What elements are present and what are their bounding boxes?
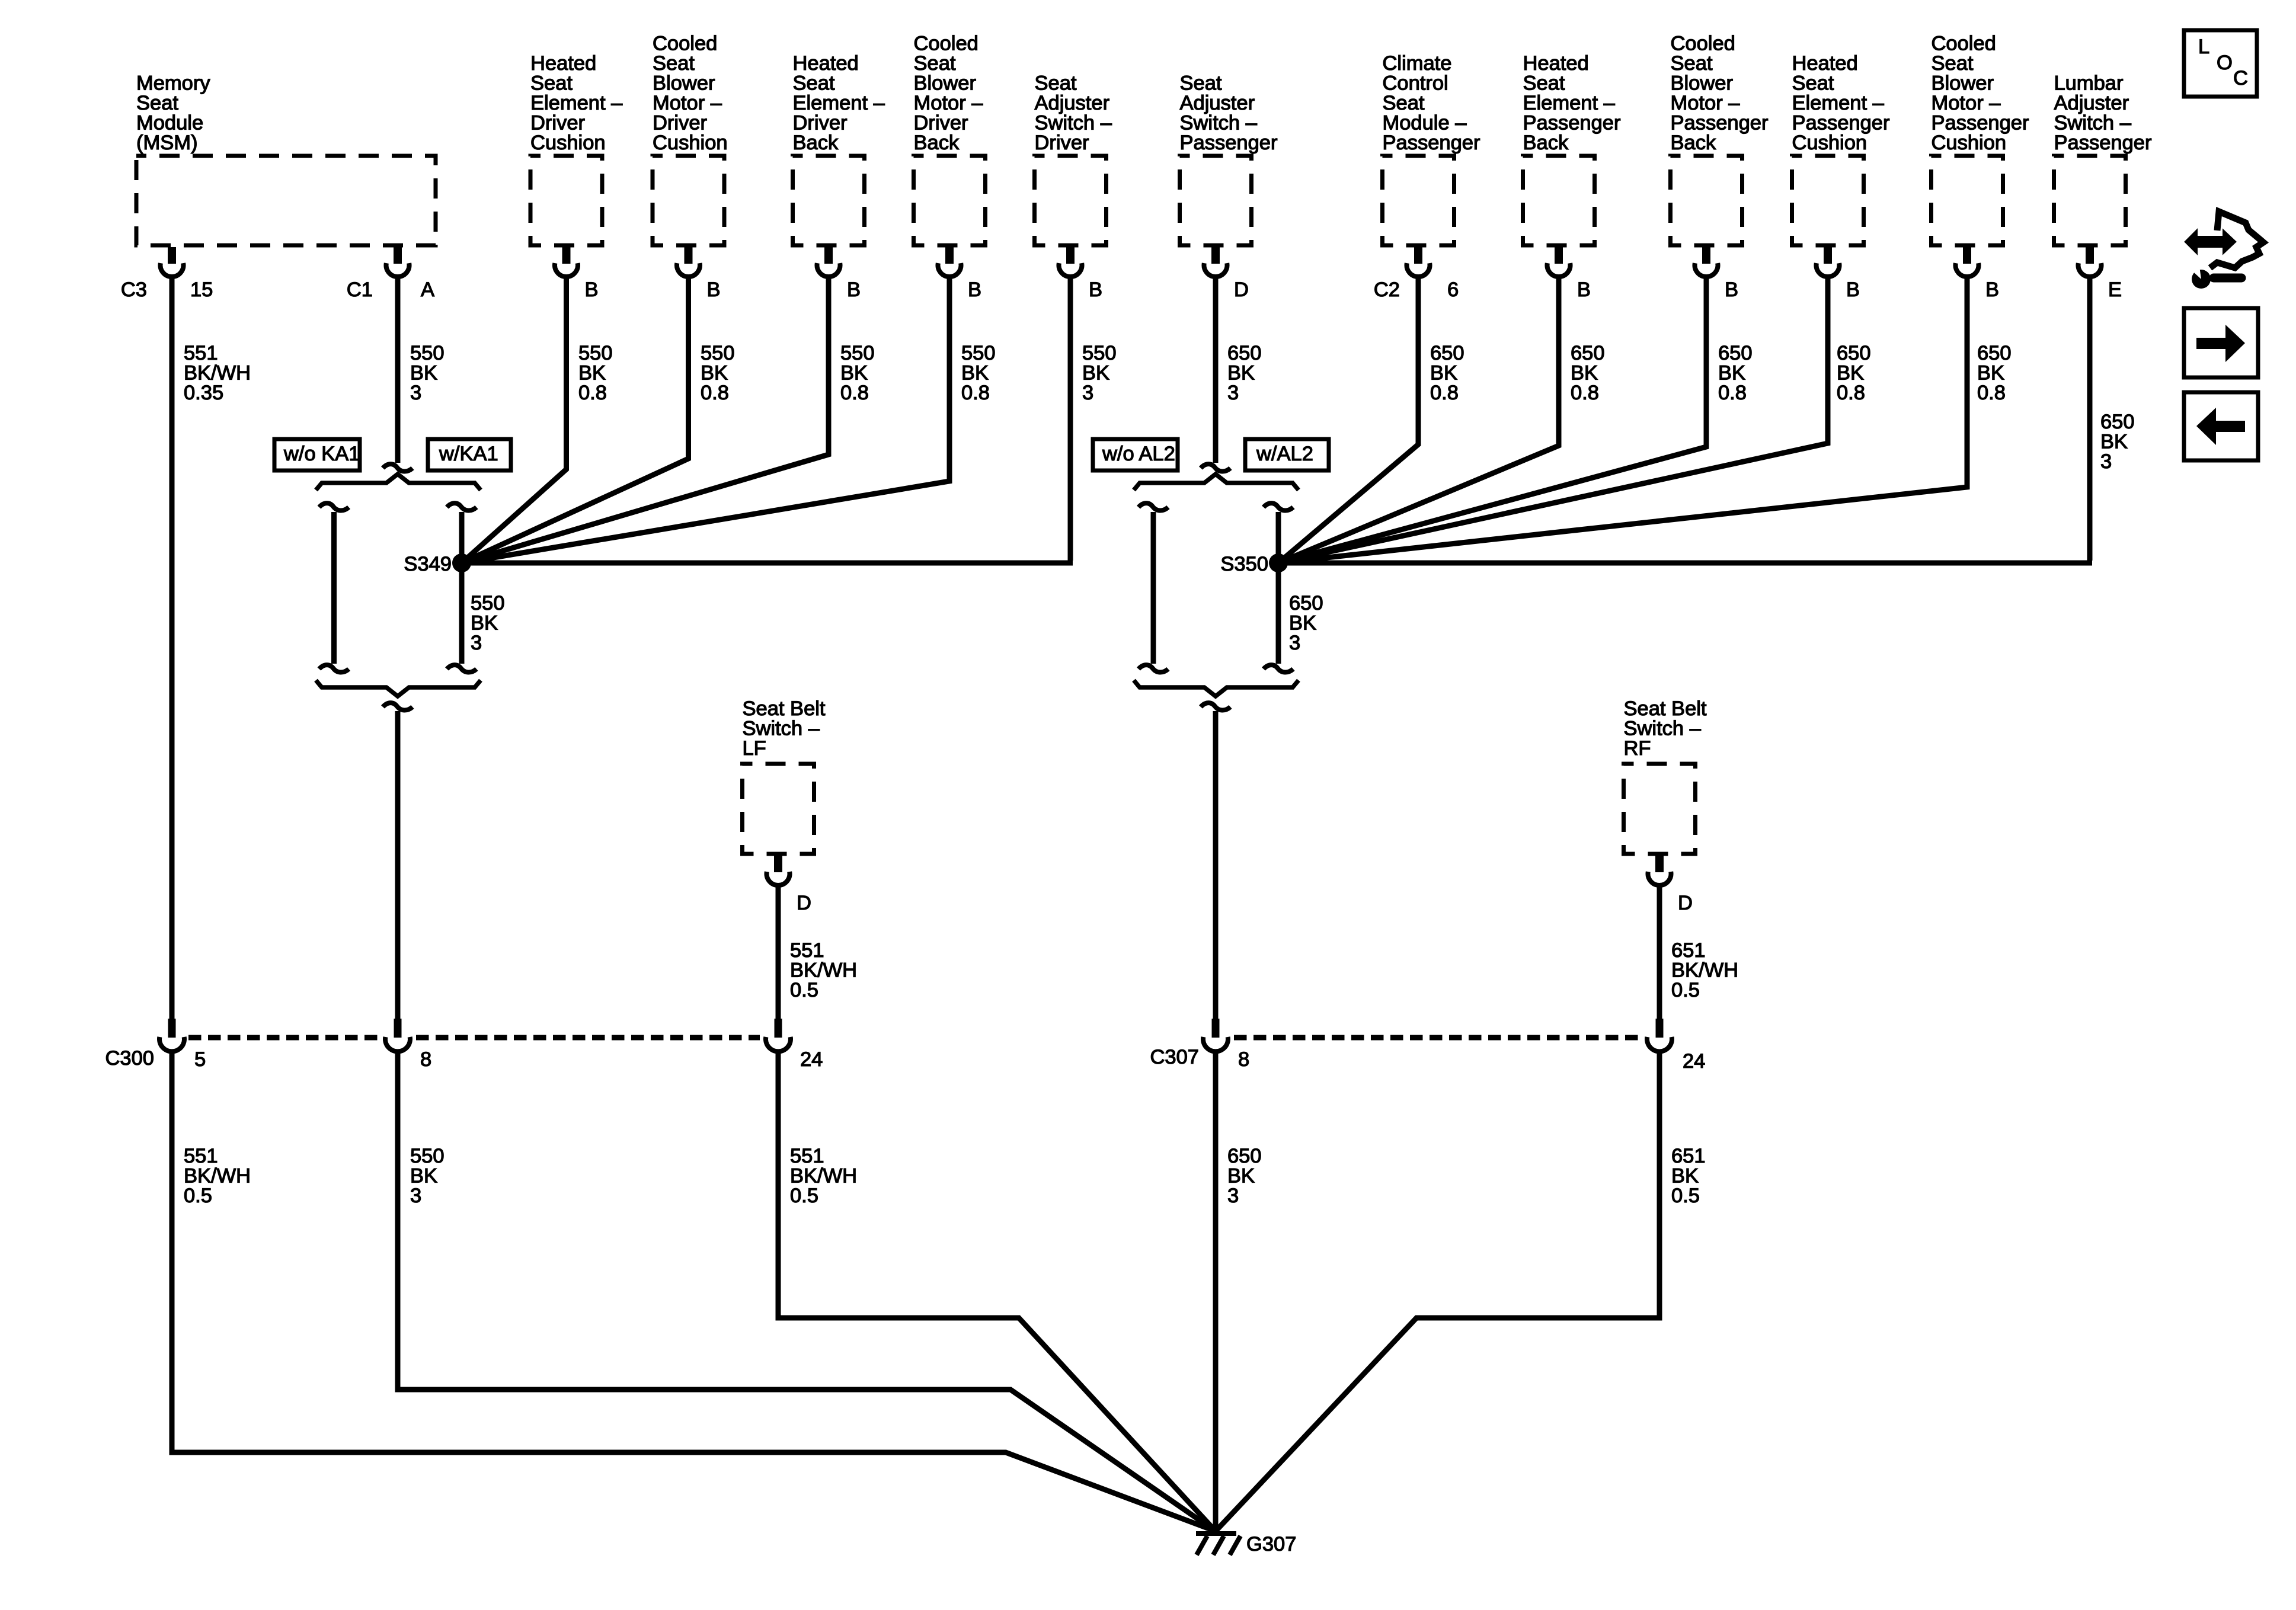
svg-text:BK: BK xyxy=(410,362,437,385)
ground G307 xyxy=(1196,1531,1296,1555)
svg-text:Seat: Seat xyxy=(1792,72,1834,95)
break symbol bottom of w/o KA1 branch xyxy=(319,665,349,672)
svg-text:C2: C2 xyxy=(1374,279,1400,301)
svg-text:550: 550 xyxy=(410,342,445,364)
wire 551 BK/WH 0.5 from C300 pin 5 to ground G307 xyxy=(172,1052,1216,1531)
connector pin E at x=3526 xyxy=(2078,247,2122,301)
component box: Heated Seat Element - Driver Back xyxy=(793,52,885,245)
svg-text:Passenger: Passenger xyxy=(1671,112,1769,135)
svg-text:3: 3 xyxy=(1227,1185,1239,1207)
break symbol bottom of w/AL2 branch xyxy=(1264,665,1293,672)
connector pin 6 at x=2393 xyxy=(1374,247,1459,301)
svg-text:Driver: Driver xyxy=(793,112,848,135)
break symbol top of w/o KA1 branch xyxy=(319,503,349,510)
wire w/AL2 branch through splice S350 xyxy=(1276,512,1281,664)
svg-text:Element –: Element – xyxy=(1792,92,1885,114)
wire 551 BK/WH 0.5 from seat belt LF to C300 xyxy=(776,885,781,1019)
svg-text:15: 15 xyxy=(190,279,213,301)
connector pin B at x=3319 xyxy=(1955,247,1999,301)
svg-text:Element –: Element – xyxy=(793,92,885,114)
svg-text:Back: Back xyxy=(1671,132,1716,154)
svg-text:Motor –: Motor – xyxy=(1932,92,2001,114)
svg-text:Back: Back xyxy=(914,132,960,154)
label: 550 BK 0.8 xyxy=(578,342,613,404)
svg-text:Passenger: Passenger xyxy=(1180,132,1278,154)
label: 551 BK/WH 0.5 (seat belt LF) xyxy=(790,939,857,1001)
svg-text:Passenger: Passenger xyxy=(2054,132,2152,154)
component box: Cooled Seat Blower Motor - Driver Back xyxy=(914,33,986,246)
component box: Heated Seat Element - Passenger Back xyxy=(1523,52,1621,245)
component box: Heated Seat Element - Driver Cushion xyxy=(530,52,623,245)
wire 651 BK 0.5 from C307 pin 24 to ground G307 xyxy=(1216,1052,1659,1531)
svg-text:650: 650 xyxy=(1289,592,1323,614)
svg-text:BK: BK xyxy=(1082,362,1109,385)
svg-text:0.35: 0.35 xyxy=(184,382,223,404)
label: 550 BK 3 (below connector row) xyxy=(410,1145,445,1207)
option box w/o AL2 xyxy=(1093,439,1178,470)
svg-text:C300: C300 xyxy=(105,1047,154,1070)
svg-text:3: 3 xyxy=(1227,382,1239,404)
wire 650 BK from seat adjuster passenger down to option split xyxy=(1213,277,1219,463)
svg-text:Heated: Heated xyxy=(793,52,859,75)
svg-text:550: 550 xyxy=(578,342,613,364)
svg-text:(MSM): (MSM) xyxy=(136,132,197,154)
svg-text:BK: BK xyxy=(1718,362,1745,385)
svg-text:BK: BK xyxy=(1227,1165,1255,1188)
svg-text:Seat: Seat xyxy=(1932,52,1974,75)
svg-text:G307: G307 xyxy=(1246,1533,1296,1555)
component box: Climate Control Seat Module - Passenger xyxy=(1383,52,1480,245)
svg-text:D: D xyxy=(1678,892,1693,914)
label: 651 BK/WH 0.5 (seat belt RF) xyxy=(1671,939,1738,1001)
svg-text:B: B xyxy=(1577,279,1591,301)
svg-text:3: 3 xyxy=(410,382,421,404)
icon box: arrow left xyxy=(2184,392,2258,460)
svg-text:BK: BK xyxy=(1837,362,1864,385)
label: 650 BK 3 xyxy=(1227,342,1262,404)
svg-text:Driver: Driver xyxy=(914,112,968,135)
label: 550 BK 3 xyxy=(1082,342,1117,404)
svg-text:Element –: Element – xyxy=(1523,92,1616,114)
svg-text:BK: BK xyxy=(578,362,606,385)
svg-text:Blower: Blower xyxy=(653,72,715,95)
svg-text:Module –: Module – xyxy=(1383,112,1467,135)
label: 551 BK/WH 0.5 (below connector row) xyxy=(790,1145,857,1207)
svg-text:Seat: Seat xyxy=(1180,72,1222,95)
svg-text:Blower: Blower xyxy=(1671,72,1733,95)
svg-text:BK: BK xyxy=(1227,362,1255,385)
svg-text:L: L xyxy=(2198,36,2209,58)
svg-text:Cushion: Cushion xyxy=(530,132,606,154)
wire 650 BK 0.8 from x=2393 to splice S350 xyxy=(1278,277,1418,563)
label: 550 BK 0.8 xyxy=(961,342,996,404)
icon: animal head with double arrow and wrench xyxy=(2186,212,2263,289)
svg-text:0.8: 0.8 xyxy=(1430,382,1459,404)
svg-text:651: 651 xyxy=(1671,939,1706,962)
svg-text:Seat Belt: Seat Belt xyxy=(1624,697,1707,720)
svg-text:B: B xyxy=(1725,279,1738,301)
svg-text:BK: BK xyxy=(1289,612,1316,635)
svg-text:B: B xyxy=(585,279,599,301)
svg-text:BK/WH: BK/WH xyxy=(184,362,251,385)
connector row C307 dashed line xyxy=(1234,1035,1641,1041)
component box: Cooled Seat Blower Motor - Passenger Back xyxy=(1671,33,1769,246)
svg-text:Back: Back xyxy=(1523,132,1569,154)
svg-text:Heated: Heated xyxy=(1523,52,1589,75)
svg-text:Cooled: Cooled xyxy=(1932,33,1996,55)
svg-text:A: A xyxy=(421,279,434,301)
wire 650 BK 0.8 from x=3084 to splice S350 xyxy=(1278,277,1828,563)
label: 551 BK/WH 0.5 (below connector row) xyxy=(184,1145,251,1207)
break symbol below AL2 option split xyxy=(1201,703,1230,710)
svg-text:B: B xyxy=(1089,279,1102,301)
svg-text:Seat: Seat xyxy=(530,72,573,95)
svg-text:w/AL2: w/AL2 xyxy=(1256,443,1313,465)
svg-text:C1: C1 xyxy=(347,279,373,301)
svg-text:O: O xyxy=(2217,52,2233,74)
svg-text:0.8: 0.8 xyxy=(578,382,607,404)
break symbol top of w/AL2 branch xyxy=(1264,503,1293,510)
svg-text:Adjuster: Adjuster xyxy=(2054,92,2129,114)
wire 550 BK 0.8 from x=1602 to splice S349 xyxy=(462,277,949,563)
option box w/KA1 xyxy=(428,439,511,470)
connector pin B at x=1398 xyxy=(817,247,861,301)
wire 651 BK/WH 0.5 from seat belt RF to C307 xyxy=(1657,885,1662,1019)
svg-text:3: 3 xyxy=(1082,382,1093,404)
component box: Seat Adjuster Switch - Passenger xyxy=(1180,72,1278,246)
wire 550 BK from C1-A down to option split xyxy=(395,277,401,463)
svg-text:3: 3 xyxy=(1289,632,1300,654)
connector pin D (Seat Belt Switch LF) xyxy=(767,854,811,914)
svg-text:B: B xyxy=(1846,279,1860,301)
connector pin B at x=1806 xyxy=(1059,247,1103,301)
svg-text:6: 6 xyxy=(1447,279,1459,301)
svg-text:550: 550 xyxy=(701,342,735,364)
break symbol bottom of w/o AL2 branch xyxy=(1139,665,1168,672)
svg-text:BK: BK xyxy=(410,1165,437,1188)
wire 650 BK 0.8 from x=3319 to splice S350 xyxy=(1278,277,1967,563)
svg-text:BK/WH: BK/WH xyxy=(184,1165,251,1188)
wire 550 BK 3 from C300 pin 8 to ground G307 xyxy=(398,1052,1216,1531)
connector pin 15 at x=290 xyxy=(121,247,213,301)
svg-text:C: C xyxy=(2233,67,2248,89)
svg-text:Lumbar: Lumbar xyxy=(2054,72,2124,95)
svg-text:551: 551 xyxy=(790,1145,824,1167)
svg-text:Switch –: Switch – xyxy=(1035,112,1112,135)
break symbol bottom of w/KA1 branch xyxy=(447,665,477,672)
splice S349 xyxy=(404,553,471,575)
svg-text:Seat: Seat xyxy=(653,52,695,75)
connector row C300 dashed line xyxy=(188,1035,760,1041)
svg-text:BK: BK xyxy=(1671,1165,1699,1188)
svg-text:Motor –: Motor – xyxy=(653,92,722,114)
svg-text:BK/WH: BK/WH xyxy=(1671,959,1738,982)
svg-text:BK: BK xyxy=(2100,431,2128,453)
label: 551 BK/WH 0.35 xyxy=(184,342,251,404)
svg-text:551: 551 xyxy=(184,342,218,364)
svg-text:BK: BK xyxy=(840,362,868,385)
svg-text:Seat: Seat xyxy=(136,92,178,114)
svg-text:551: 551 xyxy=(184,1145,218,1167)
svg-text:0.8: 0.8 xyxy=(840,382,869,404)
svg-text:C3: C3 xyxy=(121,279,147,301)
svg-text:650: 650 xyxy=(1718,342,1753,364)
svg-text:0.5: 0.5 xyxy=(184,1185,212,1207)
label: 650 BK 0.8 xyxy=(1718,342,1753,404)
svg-text:BK: BK xyxy=(471,612,498,635)
svg-text:Passenger: Passenger xyxy=(1523,112,1621,135)
svg-text:550: 550 xyxy=(1082,342,1117,364)
wire w/KA1 branch through splice S349 xyxy=(459,512,465,664)
svg-text:Seat: Seat xyxy=(1383,92,1425,114)
svg-text:Seat: Seat xyxy=(1671,52,1713,75)
svg-text:BK/WH: BK/WH xyxy=(790,1165,857,1188)
connector pin B at x=955.5 xyxy=(555,247,599,301)
bottom brace of AL2 option split xyxy=(1134,680,1299,696)
svg-text:Back: Back xyxy=(793,132,839,154)
svg-text:Cooled: Cooled xyxy=(1671,33,1735,55)
svg-text:Seat: Seat xyxy=(1523,72,1565,95)
svg-text:Switch –: Switch – xyxy=(1624,718,1702,740)
svg-text:Passenger: Passenger xyxy=(1932,112,2029,135)
svg-text:650: 650 xyxy=(1227,1145,1262,1167)
svg-text:Driver: Driver xyxy=(530,112,585,135)
svg-text:Switch –: Switch – xyxy=(1180,112,1258,135)
svg-text:550: 550 xyxy=(471,592,505,614)
svg-text:0.8: 0.8 xyxy=(961,382,990,404)
svg-text:Passenger: Passenger xyxy=(1792,112,1890,135)
component box: Memory Seat Module (MSM) xyxy=(136,72,436,246)
label: 650 BK 3 (S350 stem) xyxy=(1289,592,1323,654)
splice S350 xyxy=(1220,553,1288,575)
svg-text:Climate: Climate xyxy=(1383,52,1452,75)
svg-text:3: 3 xyxy=(410,1185,421,1207)
option box w/AL2 xyxy=(1245,439,1329,470)
wire w/o AL2 branch xyxy=(1151,512,1156,664)
label: 650 BK 0.8 xyxy=(1837,342,1871,404)
connector pin B at x=1161.5 xyxy=(677,247,721,301)
svg-text:Motor –: Motor – xyxy=(914,92,984,114)
svg-text:550: 550 xyxy=(840,342,875,364)
svg-text:0.8: 0.8 xyxy=(1718,382,1747,404)
label: 550 BK 0.8 xyxy=(840,342,875,404)
svg-text:Seat: Seat xyxy=(793,72,835,95)
svg-text:5: 5 xyxy=(194,1048,206,1071)
wire 650 BK 0.8 from x=2879 to splice S350 xyxy=(1278,277,1706,563)
connector pin B at x=2630 xyxy=(1547,247,1591,301)
svg-text:Blower: Blower xyxy=(1932,72,1994,95)
svg-text:C307: C307 xyxy=(1150,1046,1199,1068)
connector pin B at x=2879 xyxy=(1695,247,1739,301)
svg-text:Cushion: Cushion xyxy=(653,132,728,154)
svg-text:BK: BK xyxy=(961,362,989,385)
svg-text:BK: BK xyxy=(1571,362,1598,385)
svg-text:24: 24 xyxy=(800,1048,823,1071)
break symbol below KA1 option split xyxy=(383,703,412,710)
svg-text:B: B xyxy=(707,279,721,301)
component box: Seat Adjuster Switch - Driver xyxy=(1035,72,1112,246)
svg-text:Seat: Seat xyxy=(914,52,956,75)
svg-text:550: 550 xyxy=(410,1145,445,1167)
label: 550 BK 3 xyxy=(410,342,445,404)
label: 650 BK 0.8 xyxy=(1977,342,2012,404)
svg-text:Blower: Blower xyxy=(914,72,976,95)
option box w/o KA1 xyxy=(274,439,360,470)
svg-text:E: E xyxy=(2108,279,2122,301)
svg-text:Driver: Driver xyxy=(1035,132,1089,154)
svg-text:Adjuster: Adjuster xyxy=(1035,92,1110,114)
svg-text:650: 650 xyxy=(1227,342,1262,364)
svg-text:B: B xyxy=(847,279,861,301)
break symbol above S350 split xyxy=(1201,464,1230,471)
svg-text:3: 3 xyxy=(471,632,482,654)
svg-text:S350: S350 xyxy=(1220,553,1268,575)
svg-text:BK/WH: BK/WH xyxy=(790,959,857,982)
label: 650 BK 3 (below connector row) xyxy=(1227,1145,1262,1207)
svg-text:8: 8 xyxy=(1238,1048,1249,1071)
svg-text:650: 650 xyxy=(1571,342,1605,364)
svg-text:0.8: 0.8 xyxy=(1571,382,1599,404)
wire 550 BK 3 stem from KA1 split to C300 pin 8 xyxy=(395,711,401,1019)
svg-text:0.5: 0.5 xyxy=(1671,1185,1700,1207)
svg-text:D: D xyxy=(797,892,811,914)
svg-text:S349: S349 xyxy=(404,553,452,575)
connector C300 pin 8 xyxy=(385,1019,431,1071)
label: 550 BK 3 (S349 stem) xyxy=(471,592,505,654)
wire 551 BK/WH 0.35 from MSM C3-15 to C300 pin 5 xyxy=(170,277,175,1019)
svg-text:LF: LF xyxy=(743,737,766,760)
wire 550 BK 0.8 from x=1161.5 to splice S349 xyxy=(462,277,689,563)
svg-text:w/KA1: w/KA1 xyxy=(439,443,498,465)
svg-text:Cushion: Cushion xyxy=(1792,132,1868,154)
svg-text:0.8: 0.8 xyxy=(1837,382,1865,404)
svg-text:551: 551 xyxy=(790,939,824,962)
wire 650 BK 3 from C307 pin 8 to ground G307 xyxy=(1213,1052,1219,1531)
wire w/o KA1 branch xyxy=(331,512,337,664)
wire 551 BK/WH 0.5 from C300 pin 24 to ground G307 xyxy=(778,1052,1216,1531)
svg-text:Heated: Heated xyxy=(530,52,596,75)
svg-text:B: B xyxy=(1985,279,1999,301)
connector C300 pin 5 xyxy=(105,1019,206,1071)
svg-text:0.5: 0.5 xyxy=(790,979,818,1001)
svg-text:8: 8 xyxy=(420,1048,431,1071)
wire 650 BK 0.8 from x=2630 to splice S350 xyxy=(1278,277,1559,563)
svg-text:650: 650 xyxy=(2100,411,2135,433)
svg-text:BK: BK xyxy=(1977,362,2004,385)
break symbol above S349 split xyxy=(383,464,412,471)
wire 650 BK 3 stem from AL2 split to C307 pin 8 xyxy=(1213,711,1219,1019)
label: 550 BK 0.8 xyxy=(701,342,735,404)
svg-text:Memory: Memory xyxy=(136,72,210,95)
component box: Heated Seat Element - Passenger Cushion xyxy=(1792,52,1890,245)
svg-text:Module: Module xyxy=(136,112,203,135)
svg-text:0.8: 0.8 xyxy=(1977,382,2006,404)
wire 550 BK 0.8 from x=955.5 to splice S349 xyxy=(462,277,567,563)
svg-text:0.5: 0.5 xyxy=(790,1185,818,1207)
svg-text:RF: RF xyxy=(1624,737,1651,760)
svg-text:Control: Control xyxy=(1383,72,1448,95)
svg-text:B: B xyxy=(968,279,981,301)
svg-text:BK: BK xyxy=(701,362,728,385)
legend box LOC xyxy=(2184,30,2257,97)
label: 650 BK 3 (lumbar wire) xyxy=(2100,411,2135,473)
svg-text:Switch –: Switch – xyxy=(2054,112,2132,135)
svg-text:650: 650 xyxy=(1430,342,1464,364)
svg-text:Adjuster: Adjuster xyxy=(1180,92,1255,114)
label: 650 BK 0.8 xyxy=(1430,342,1464,404)
break symbol top of w/KA1 branch xyxy=(447,503,477,510)
svg-text:Element –: Element – xyxy=(530,92,623,114)
svg-text:Seat Belt: Seat Belt xyxy=(743,697,826,720)
break symbol top of w/o AL2 branch xyxy=(1139,503,1168,510)
connector C307 pin 24 xyxy=(1647,1019,1705,1073)
svg-text:w/o KA1: w/o KA1 xyxy=(283,443,360,465)
svg-text:Heated: Heated xyxy=(1792,52,1858,75)
svg-text:w/o AL2: w/o AL2 xyxy=(1102,443,1175,465)
svg-text:Driver: Driver xyxy=(653,112,707,135)
svg-text:Seat: Seat xyxy=(1035,72,1077,95)
connector pin A at x=671 xyxy=(347,247,434,301)
connector pin D (Seat Belt Switch RF) xyxy=(1648,854,1693,914)
bottom brace of KA1 option split xyxy=(316,680,481,696)
svg-text:3: 3 xyxy=(2100,450,2112,473)
icon box: arrow right xyxy=(2184,308,2258,377)
connector pin B at x=1602 xyxy=(938,247,982,301)
component box: Cooled Seat Blower Motor - Passenger Cushion xyxy=(1932,33,2029,246)
connector pin D at x=2051 xyxy=(1204,247,1249,301)
wire 550 BK 3 from seat adjuster switch driver to splice S349 xyxy=(462,277,1073,563)
svg-text:Cooled: Cooled xyxy=(914,33,978,55)
label: 650 BK 0.8 xyxy=(1571,342,1605,404)
top brace of AL2 option split xyxy=(1134,474,1299,490)
svg-text:Cushion: Cushion xyxy=(1932,132,2007,154)
svg-text:24: 24 xyxy=(1683,1050,1705,1073)
component box: Seat Belt Switch - LF xyxy=(743,697,826,854)
svg-text:Passenger: Passenger xyxy=(1383,132,1480,154)
wire 550 BK 0.8 from x=1398 to splice S349 xyxy=(462,277,829,563)
svg-text:BK: BK xyxy=(1430,362,1457,385)
connector pin B at x=3084 xyxy=(1817,247,1860,301)
connector C307 pin 8 xyxy=(1150,1019,1250,1071)
svg-text:650: 650 xyxy=(1837,342,1871,364)
top brace of KA1 option split xyxy=(316,474,481,490)
svg-text:0.5: 0.5 xyxy=(1671,979,1700,1001)
svg-text:651: 651 xyxy=(1671,1145,1706,1167)
component box: Cooled Seat Blower Motor - Driver Cushion xyxy=(653,33,728,246)
component box: Lumbar Adjuster Switch - Passenger xyxy=(2054,72,2152,246)
connector C300 pin 24 xyxy=(766,1019,823,1071)
component box: Seat Belt Switch - RF xyxy=(1624,697,1707,854)
label: 651 BK 0.5 (below connector row) xyxy=(1671,1145,1706,1207)
svg-text:Motor –: Motor – xyxy=(1671,92,1741,114)
wire 650 BK 3 from lumbar adjuster switch to splice S350 xyxy=(1278,277,2092,563)
svg-text:0.8: 0.8 xyxy=(701,382,729,404)
svg-text:650: 650 xyxy=(1977,342,2012,364)
svg-text:550: 550 xyxy=(961,342,996,364)
svg-text:Switch –: Switch – xyxy=(743,718,820,740)
svg-text:D: D xyxy=(1234,279,1249,301)
svg-text:Cooled: Cooled xyxy=(653,33,717,55)
